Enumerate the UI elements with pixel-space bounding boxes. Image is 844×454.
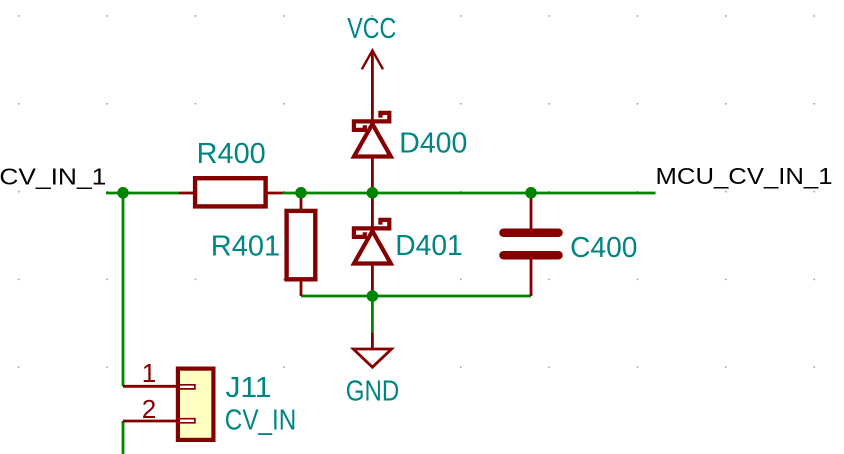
svg-text:R401: R401 xyxy=(211,231,280,263)
svg-text:CV_IN: CV_IN xyxy=(225,404,296,436)
svg-text:VCC: VCC xyxy=(347,13,396,45)
svg-text:CV_IN_1: CV_IN_1 xyxy=(0,163,106,189)
svg-text:MCU_CV_IN_1: MCU_CV_IN_1 xyxy=(656,163,833,189)
svg-text:GND: GND xyxy=(346,375,400,407)
svg-text:R400: R400 xyxy=(197,138,266,170)
svg-text:1: 1 xyxy=(142,358,157,388)
svg-text:C400: C400 xyxy=(570,232,637,264)
svg-text:J11: J11 xyxy=(226,372,272,404)
svg-text:D401: D401 xyxy=(395,230,462,262)
svg-text:D400: D400 xyxy=(399,128,467,160)
svg-text:2: 2 xyxy=(142,394,157,424)
